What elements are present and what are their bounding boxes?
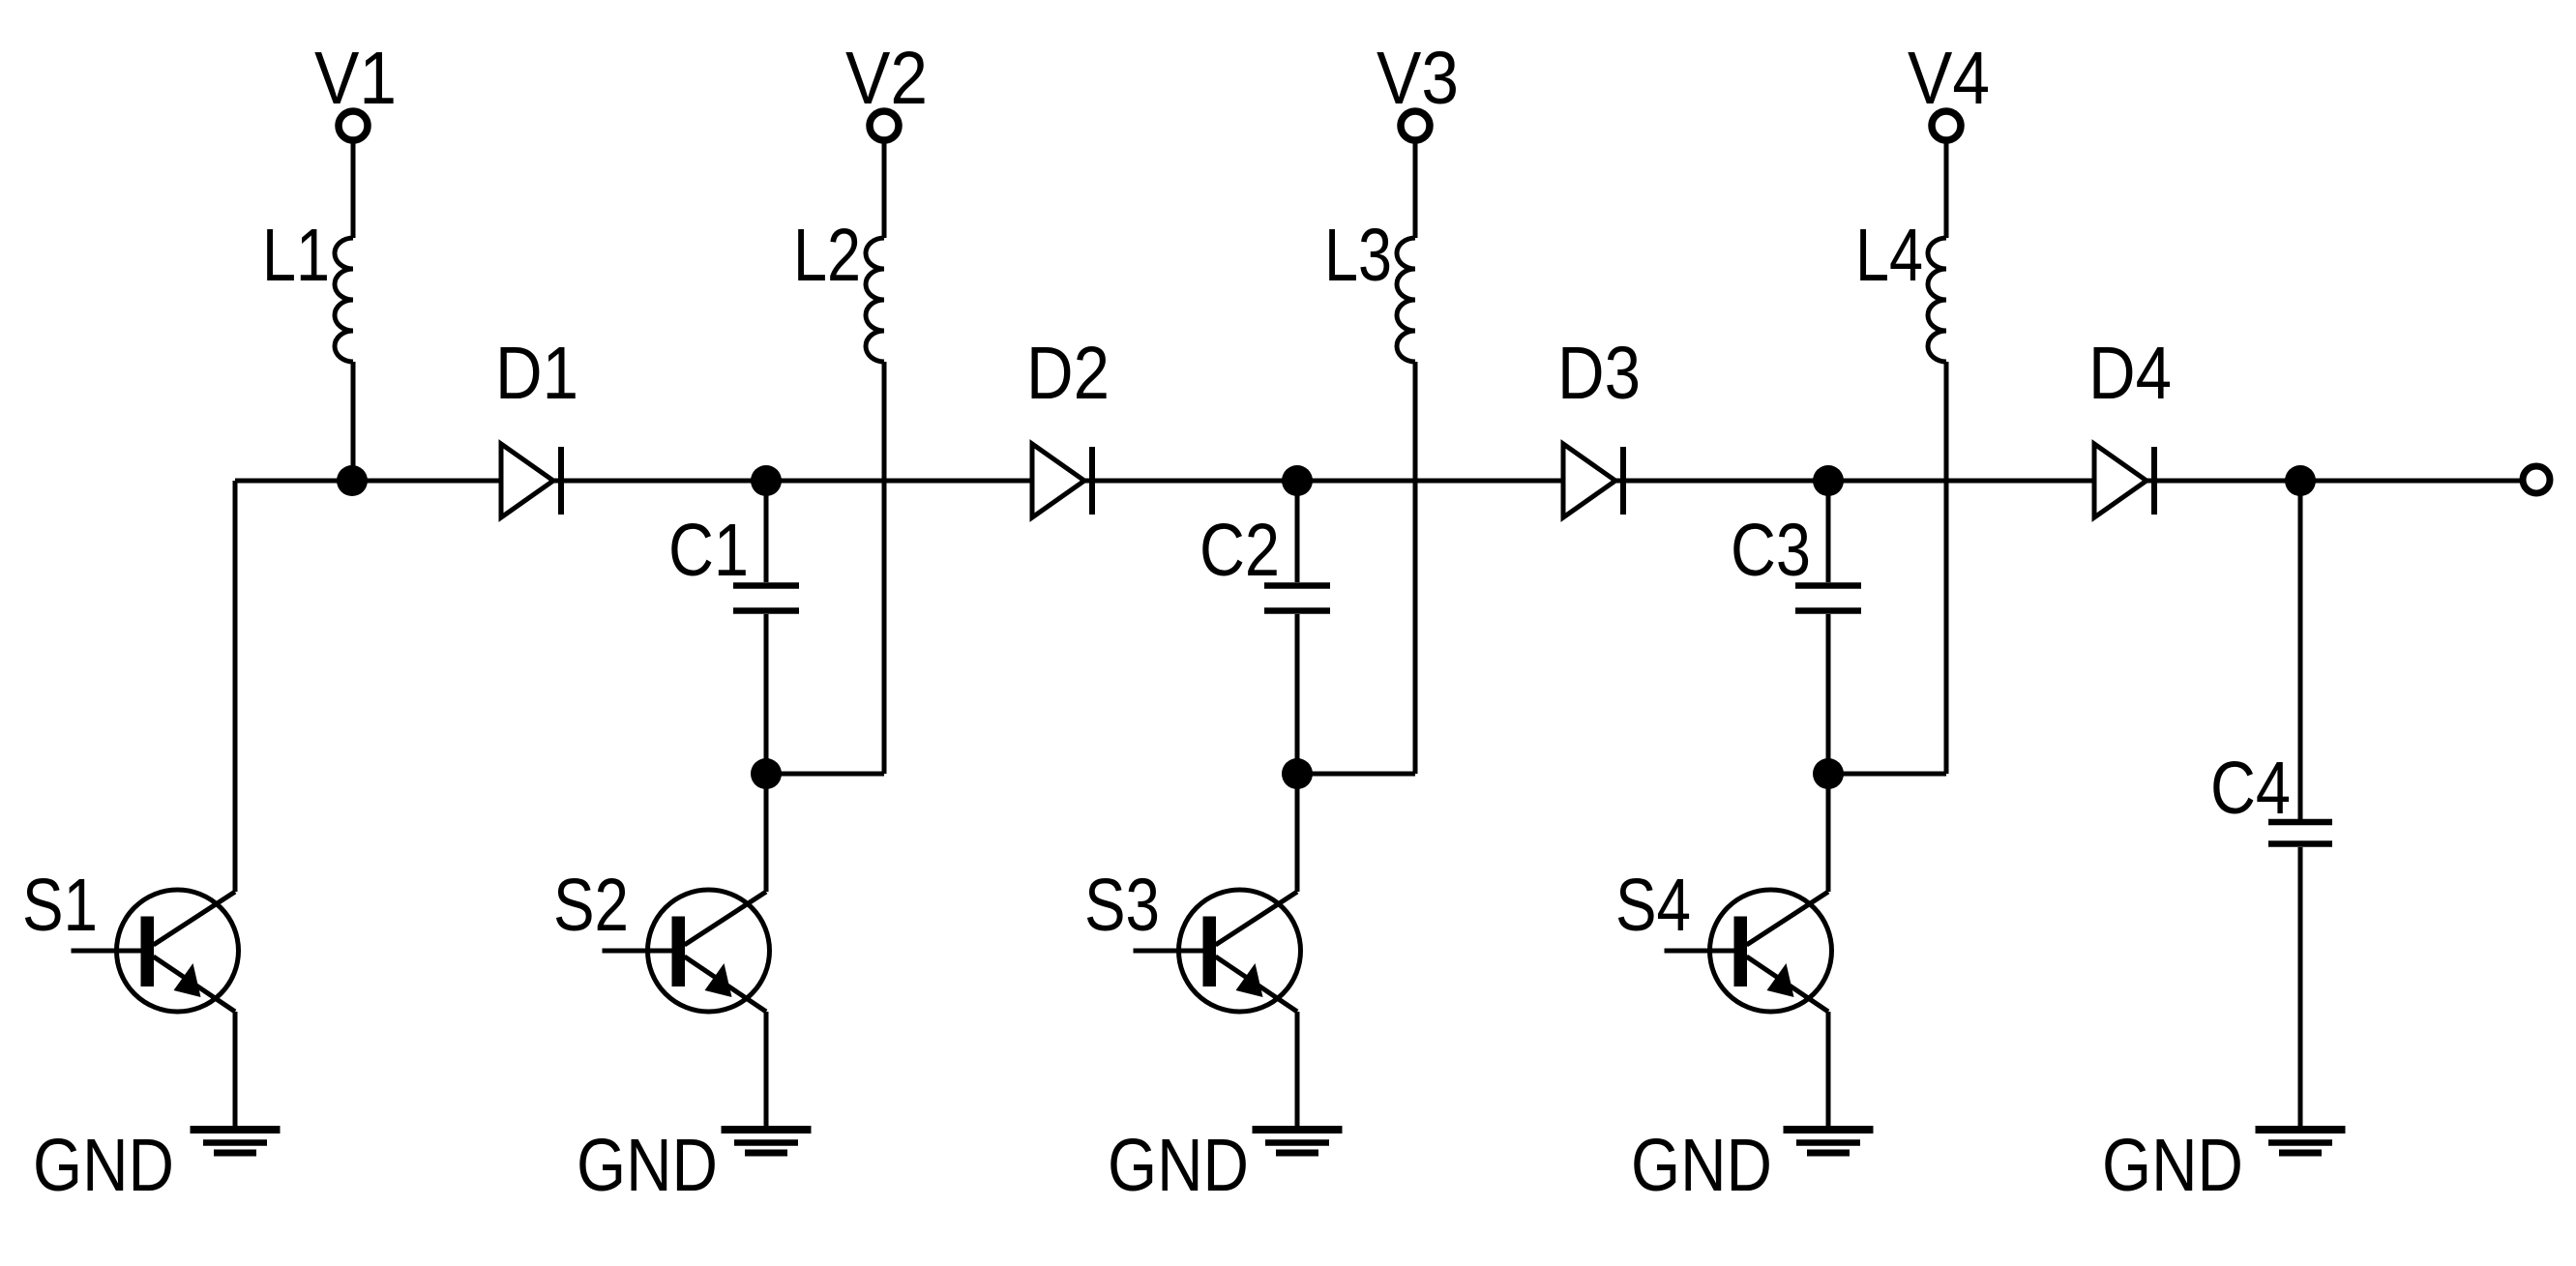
node V1 terminal circle — [339, 111, 368, 140]
node V3 terminal circle — [1401, 111, 1430, 140]
transistor S2 — [603, 890, 770, 1012]
svg-text:V2: V2 — [845, 37, 928, 120]
wire C3 down to S4 collector — [1826, 614, 1831, 892]
junction node C2 bottom — [1282, 758, 1313, 789]
wire bus to C4 — [2298, 481, 2303, 819]
wire V4 to L4 — [1944, 141, 1949, 238]
inductor L1 — [335, 238, 353, 362]
junction node C4 / bus — [2285, 465, 2316, 496]
svg-text:L3: L3 — [1324, 214, 1392, 297]
wire jog C2 node to L3 — [1297, 772, 1415, 777]
node V2 terminal circle — [870, 111, 899, 140]
inductor L4 — [1928, 238, 1946, 362]
svg-text:S2: S2 — [553, 864, 629, 947]
junction node on bus at C3 — [1813, 465, 1844, 496]
svg-text:C4: C4 — [2210, 747, 2291, 830]
svg-text:GND: GND — [2102, 1124, 2243, 1207]
node V4 terminal circle — [1932, 111, 1961, 140]
svg-text:V4: V4 — [1908, 37, 1990, 120]
wire V3 to L3 — [1413, 141, 1418, 238]
transistor S3 — [1134, 890, 1301, 1012]
diode D1 — [501, 444, 561, 517]
wire C1 down to S2 collector — [764, 614, 769, 892]
svg-text:C1: C1 — [668, 509, 749, 592]
svg-text:C3: C3 — [1731, 509, 1811, 592]
svg-text:L1: L1 — [262, 214, 330, 297]
svg-text:L4: L4 — [1855, 214, 1923, 297]
ground symbol stage 3 — [1253, 1130, 1343, 1153]
wire S1 emitter to ground — [233, 1012, 238, 1129]
wire bus to C3 — [1826, 481, 1831, 582]
wire L1 down — [351, 362, 356, 481]
svg-text:GND: GND — [577, 1124, 718, 1207]
svg-text:GND: GND — [1108, 1124, 1249, 1207]
junction node on bus at C1 — [751, 465, 782, 496]
inductor L2 — [866, 238, 884, 362]
svg-text:D3: D3 — [1557, 332, 1641, 415]
svg-text:GND: GND — [1631, 1124, 1772, 1207]
wire bus elbow down to S1 collector — [233, 481, 238, 892]
wire V1 to L1 — [351, 141, 356, 238]
wire L4 down — [1944, 362, 1949, 774]
wire main bus — [235, 479, 2522, 484]
wire C2 down to S3 collector — [1295, 614, 1300, 892]
capacitor C3 — [1795, 586, 1861, 611]
inductor L3 — [1397, 238, 1415, 362]
svg-text:C2: C2 — [1199, 509, 1280, 592]
capacitor C4 — [2268, 822, 2332, 844]
wire L3 down — [1413, 362, 1418, 774]
wire jog C1 node to L2 — [766, 772, 884, 777]
capacitor C2 — [1264, 586, 1330, 611]
wire bus to C2 — [1295, 481, 1300, 582]
transistor S1 — [72, 890, 239, 1012]
wire S4 emitter to ground — [1826, 1012, 1831, 1129]
junction node L1 / bus — [337, 465, 368, 496]
svg-text:GND: GND — [33, 1124, 174, 1207]
junction node on bus at C2 — [1282, 465, 1313, 496]
ground symbol output — [2256, 1130, 2346, 1153]
junction node C1 bottom — [751, 758, 782, 789]
wire L2 down — [882, 362, 887, 774]
wire S3 emitter to ground — [1295, 1012, 1300, 1129]
ground symbol stage 4 — [1784, 1130, 1874, 1153]
diode D2 — [1032, 444, 1092, 517]
node output terminal circle — [2523, 466, 2550, 493]
diode D4 — [2094, 444, 2154, 517]
ground symbol stage 1 — [191, 1130, 281, 1153]
wire jog C3 node to L4 — [1828, 772, 1946, 777]
svg-text:V3: V3 — [1377, 37, 1459, 120]
capacitor C1 — [733, 586, 799, 611]
transistor S4 — [1665, 890, 1832, 1012]
diode D3 — [1563, 444, 1623, 517]
ground symbol stage 2 — [722, 1130, 812, 1153]
svg-text:D1: D1 — [495, 332, 578, 415]
wire C4 to ground — [2298, 847, 2303, 1129]
svg-text:S4: S4 — [1615, 864, 1691, 947]
junction node C3 bottom — [1813, 758, 1844, 789]
svg-text:L2: L2 — [793, 214, 861, 297]
svg-text:S3: S3 — [1084, 864, 1160, 947]
svg-text:D2: D2 — [1026, 332, 1110, 415]
wire bus to C1 — [764, 481, 769, 582]
wire V2 to L2 — [882, 141, 887, 238]
svg-text:S1: S1 — [22, 864, 98, 947]
wire S2 emitter to ground — [764, 1012, 769, 1129]
svg-text:V1: V1 — [314, 37, 397, 120]
svg-text:D4: D4 — [2088, 332, 2172, 415]
